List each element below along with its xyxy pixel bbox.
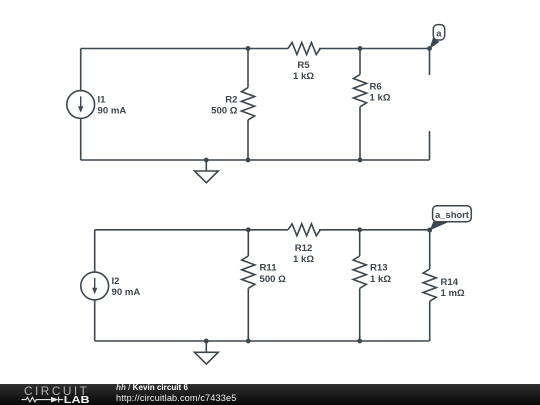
flag box node a_short — [433, 206, 472, 222]
wire node a_short down to R14 — [429, 230, 431, 269]
label R14 value — [441, 277, 466, 299]
wire left vertical lower bottom circuit — [94, 300, 96, 341]
svg-text:90 mA: 90 mA — [112, 287, 141, 298]
node dot at corner a — [427, 46, 432, 51]
wire node R6 to corner a — [360, 48, 430, 50]
svg-text:I1: I1 — [98, 94, 107, 105]
svg-text:500 Ω: 500 Ω — [211, 106, 238, 117]
label I1 value — [98, 94, 127, 116]
svg-text:LAB: LAB — [64, 394, 90, 405]
resistor R5 — [288, 43, 320, 55]
svg-text:1 kΩ: 1 kΩ — [293, 254, 314, 265]
svg-text:I2: I2 — [112, 276, 120, 287]
footer meta text line 2 — [116, 394, 236, 403]
ground top circuit — [195, 160, 219, 183]
CircuitLab logo — [20, 384, 115, 405]
node dot bottom rail at ground 2 — [204, 339, 209, 344]
svg-text:R14: R14 — [441, 277, 459, 288]
footer bar — [0, 384, 540, 405]
wire node R11 to R12 left terminal — [248, 229, 288, 231]
wire node R13 to node a_short — [360, 229, 430, 231]
wire left vertical upper bottom circuit — [94, 230, 96, 272]
svg-text:R11: R11 — [260, 263, 278, 274]
wire bottom rail top circuit — [81, 159, 430, 161]
flag pointer node a — [429, 38, 439, 49]
wire left vertical lower (I1 to bottom rail) — [80, 118, 82, 160]
svg-text:R6: R6 — [370, 82, 382, 93]
node dot bottom rail at ground — [204, 158, 209, 163]
node dot bottom rail at R6 — [358, 158, 363, 163]
svg-text:500 Ω: 500 Ω — [260, 274, 287, 285]
wire top rail bottom circuit left (I2 top to node R11) — [95, 229, 249, 231]
resistor R11 — [242, 230, 255, 341]
label I2 value — [112, 276, 141, 298]
wire bottom rail bottom circuit — [95, 340, 430, 342]
resistor R14 — [423, 269, 436, 301]
svg-text:a: a — [436, 27, 442, 38]
label R11 value — [260, 263, 287, 285]
svg-text:R13: R13 — [370, 263, 388, 274]
node dot top rail at R6 — [358, 46, 363, 51]
flag box node a — [433, 25, 444, 40]
wire top-left horizontal (I1 top to node R2) — [81, 48, 248, 50]
node dot bottom rail at R13 — [357, 339, 362, 344]
wire R12 right terminal to node R13 — [319, 229, 360, 231]
wire R5 right terminal to node R6 — [319, 48, 360, 50]
resistor R12 — [288, 224, 320, 236]
resistor R13 — [353, 230, 366, 341]
wire left vertical upper (I1 to top rail) — [80, 49, 82, 91]
svg-text:1 kΩ: 1 kΩ — [293, 71, 314, 82]
node dot bottom rail at R11 — [246, 339, 251, 344]
svg-text:R2: R2 — [225, 94, 237, 105]
wire node R2 to R5 left terminal — [248, 48, 288, 50]
svg-text:a_short: a_short — [435, 209, 469, 220]
current source I1 — [67, 91, 95, 119]
svg-text:1 mΩ: 1 mΩ — [441, 288, 466, 299]
node dot at a_short — [427, 228, 432, 233]
footer meta text line 1 — [116, 385, 188, 392]
current source I2 — [81, 272, 109, 300]
wire right vertical lower segment (open gap) — [429, 131, 431, 160]
label R13 value — [370, 263, 391, 285]
node dot top rail at R13 — [357, 227, 362, 232]
label R2 value — [211, 94, 238, 116]
node dot top rail at R11 — [246, 227, 251, 232]
svg-text:R12: R12 — [295, 243, 313, 254]
flag pointer node a_short — [430, 222, 449, 231]
resistor R6 — [353, 49, 366, 161]
node dot bottom rail at R2 — [246, 158, 251, 163]
label R6 value — [370, 82, 391, 104]
svg-text:R5: R5 — [297, 60, 310, 71]
svg-text:90 mA: 90 mA — [98, 106, 127, 117]
ground bottom circuit — [195, 341, 219, 364]
node dot top rail at R2 — [246, 46, 251, 51]
svg-text:1 kΩ: 1 kΩ — [370, 274, 391, 285]
label R12 value — [293, 243, 314, 265]
wire open stub below node a — [429, 49, 431, 76]
resistor R2 — [241, 49, 254, 161]
svg-text:1 kΩ: 1 kΩ — [370, 93, 391, 104]
wire R14 bottom lead — [429, 301, 431, 341]
label R5 value — [293, 60, 314, 82]
